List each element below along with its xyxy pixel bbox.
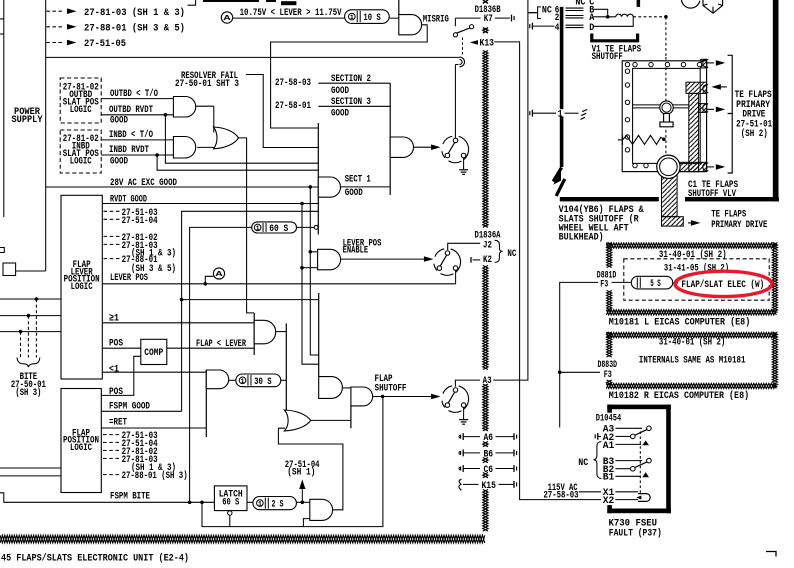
svg-text:K15: K15 [482, 480, 496, 492]
svg-text:A: A [224, 15, 232, 23]
svg-text:OUTBD < T/O: OUTBD < T/O [110, 88, 158, 100]
svg-text:INTERNALS SAME AS M10181: INTERNALS SAME AS M10181 [639, 355, 746, 367]
svg-text:30 S: 30 S [254, 376, 272, 387]
svg-text:27-58-03: 27-58-03 [544, 490, 579, 502]
svg-text:MISRIG: MISRIG [423, 14, 449, 26]
svg-text:M10182 R EICAS COMPUTER (E8): M10182 R EICAS COMPUTER (E8) [609, 390, 749, 402]
svg-text:D: D [589, 22, 594, 34]
svg-text:45 FLAPS/SLATS ELECTRONIC UNI: 45 FLAPS/SLATS ELECTRONIC UNIT (E2-4) [1, 553, 189, 563]
svg-text:C6: C6 [484, 464, 494, 476]
svg-text:27-58-01: 27-58-01 [275, 100, 311, 112]
svg-text:GOOD: GOOD [345, 187, 363, 199]
svg-text:1: 1 [256, 225, 260, 233]
svg-text:1: 1 [350, 14, 354, 22]
svg-text:K13: K13 [480, 37, 495, 49]
svg-text:GOOD: GOOD [331, 107, 349, 119]
svg-text:27-51-05: 27-51-05 [84, 38, 126, 50]
svg-text:SHUTOFF: SHUTOFF [375, 383, 407, 395]
svg-text:27-88-01 (SH 3 & 5): 27-88-01 (SH 3 & 5) [84, 22, 185, 34]
svg-text:31-40-01 (SH 2): 31-40-01 (SH 2) [659, 336, 725, 348]
svg-text:NC: NC [507, 248, 516, 260]
svg-text:NC: NC [578, 457, 588, 469]
svg-text:FLAP/SLAT ELEC (W): FLAP/SLAT ELEC (W) [681, 279, 764, 291]
svg-text:FLAP < LEVER: FLAP < LEVER [196, 338, 247, 350]
svg-text:INBD RVDT: INBD RVDT [109, 144, 149, 156]
svg-text:SUPPLY: SUPPLY [12, 114, 44, 126]
svg-text:(SH 3): (SH 3) [15, 387, 41, 399]
svg-text:60 S: 60 S [269, 223, 288, 234]
svg-text:60 S: 60 S [222, 497, 239, 509]
svg-text:10.75V < LEVER > 11.75V: 10.75V < LEVER > 11.75V [240, 7, 343, 19]
svg-text:B6: B6 [484, 448, 494, 460]
svg-text:J2: J2 [483, 240, 492, 252]
svg-text:4: 4 [555, 22, 560, 34]
svg-text:31-40-01 (SH 2): 31-40-01 (SH 2) [659, 249, 727, 261]
svg-text:COMP: COMP [144, 347, 163, 359]
svg-text:PRIMARY DRIVE: PRIMARY DRIVE [711, 219, 767, 231]
svg-text:27-58-03: 27-58-03 [275, 77, 311, 89]
svg-text:LOGIC: LOGIC [70, 442, 92, 454]
svg-text:K2: K2 [483, 254, 492, 266]
svg-text:SHUTOFF: SHUTOFF [592, 51, 623, 63]
svg-text:27-81-03 (SH 1 & 3): 27-81-03 (SH 1 & 3) [84, 7, 185, 19]
svg-text:(SH 1 & 3): (SH 1 & 3) [131, 462, 176, 474]
svg-text:27-50-01 SHT 3: 27-50-01 SHT 3 [175, 78, 239, 90]
svg-text:27-51-04: 27-51-04 [122, 215, 158, 227]
svg-text:A6: A6 [484, 432, 494, 444]
svg-text:F3: F3 [600, 278, 608, 290]
svg-text:SECT 1: SECT 1 [345, 174, 371, 186]
svg-text:<1: <1 [109, 363, 119, 375]
svg-text:A: A [216, 271, 224, 279]
svg-text:LOGIC: LOGIC [71, 281, 93, 293]
svg-text:28V AC EXC GOOD: 28V AC EXC GOOD [110, 177, 177, 189]
svg-text:M10181 L EICAS COMPUTER (E8): M10181 L EICAS COMPUTER (E8) [609, 316, 751, 328]
svg-text:BULKHEAD): BULKHEAD) [559, 232, 604, 244]
svg-text:GOOD: GOOD [110, 115, 128, 127]
svg-text:K7: K7 [484, 13, 493, 25]
svg-text:LOGIC: LOGIC [70, 104, 92, 116]
svg-text:FSPM BITE: FSPM BITE [110, 490, 150, 502]
svg-text:POS: POS [109, 386, 123, 398]
svg-text:FAULT (P37): FAULT (P37) [609, 527, 662, 539]
svg-text:NC: NC [542, 5, 552, 17]
svg-text:GOOD: GOOD [110, 156, 128, 168]
svg-text:10 S: 10 S [363, 12, 380, 23]
svg-text:1: 1 [241, 378, 245, 386]
svg-text:1: 1 [258, 501, 262, 509]
svg-text:D10454: D10454 [596, 413, 621, 425]
svg-text:SHUTOFF VLV: SHUTOFF VLV [688, 188, 737, 200]
svg-text:2 S: 2 S [272, 499, 284, 510]
svg-text:INBD < T/O: INBD < T/O [109, 129, 153, 141]
svg-text:B1: B1 [603, 472, 615, 484]
svg-text:NC: NC [575, 0, 585, 8]
svg-text:(SH 2): (SH 2) [741, 128, 768, 140]
svg-text:FSPM GOOD: FSPM GOOD [109, 400, 150, 412]
svg-text:LOGIC: LOGIC [70, 156, 92, 168]
svg-text:A1: A1 [603, 440, 615, 452]
svg-text:X2: X2 [603, 495, 615, 507]
svg-text:=RET: =RET [109, 417, 127, 429]
svg-text:(SH 1): (SH 1) [287, 466, 315, 478]
svg-text:LEVER POS: LEVER POS [110, 272, 148, 284]
svg-text:(SH 1 & 3): (SH 1 & 3) [131, 248, 176, 260]
svg-text:5 S: 5 S [650, 278, 661, 289]
svg-text:F3: F3 [604, 369, 612, 381]
svg-text:ENABLE: ENABLE [343, 245, 369, 257]
svg-text:A3: A3 [483, 375, 492, 387]
